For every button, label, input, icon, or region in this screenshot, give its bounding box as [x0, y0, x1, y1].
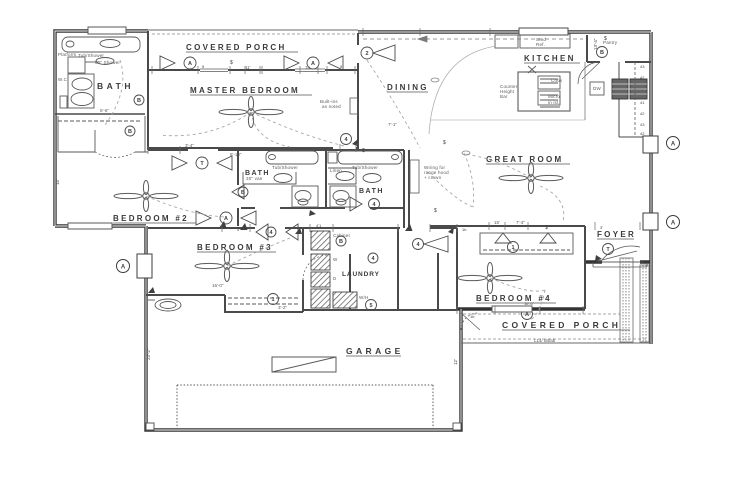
svg-text:7'-1": 7'-1"	[388, 122, 397, 127]
svg-text:11': 11'	[245, 65, 251, 70]
svg-text:DW: DW	[593, 86, 601, 91]
svg-text:MASTER BEDROOM: MASTER BEDROOM	[190, 86, 300, 95]
svg-text:60" Shower: 60" Shower	[95, 60, 120, 65]
svg-text:B: B	[137, 98, 141, 104]
svg-text:A: A	[671, 142, 676, 148]
svg-text:Ref.: Ref.	[536, 42, 545, 47]
svg-text:B: B	[128, 129, 132, 135]
svg-text:16'-0": 16'-0"	[524, 301, 535, 306]
svg-text:W.C.: W.C.	[58, 77, 69, 82]
svg-text:12': 12'	[453, 359, 458, 365]
svg-text:15': 15'	[494, 220, 500, 225]
svg-text:43: 43	[640, 64, 645, 69]
svg-text:Linen: Linen	[330, 168, 342, 173]
svg-text:Cook: Cook	[551, 78, 563, 83]
svg-text:2: 2	[365, 51, 368, 57]
svg-text:LAUNDRY: LAUNDRY	[342, 271, 380, 278]
svg-text:5: 5	[369, 303, 372, 309]
svg-text:Micro: Micro	[548, 94, 560, 99]
svg-text:$: $	[362, 148, 365, 154]
svg-text:23'-2": 23'-2"	[146, 348, 151, 360]
svg-text:42: 42	[640, 75, 645, 80]
svg-text:8'-10": 8'-10"	[230, 152, 242, 157]
svg-text:A: A	[224, 216, 228, 222]
svg-text:$: $	[230, 60, 233, 66]
svg-text:+ crown: + crown	[424, 175, 442, 180]
svg-text:$: $	[604, 36, 607, 42]
svg-text:COVERED PORCH: COVERED PORCH	[186, 43, 287, 52]
svg-text:B: B	[339, 239, 343, 245]
svg-text:3'-4": 3'-4"	[185, 143, 194, 148]
svg-text:5'-6": 5'-6"	[100, 108, 109, 113]
svg-text:BEDROOM #3: BEDROOM #3	[197, 243, 273, 252]
svg-text:Tub/Shower: Tub/Shower	[78, 53, 104, 58]
svg-text:43: 43	[640, 122, 645, 127]
svg-text:Bar: Bar	[500, 94, 508, 99]
svg-text:3': 3'	[600, 225, 603, 230]
svg-text:A: A	[671, 221, 676, 227]
svg-text:in isl.: in isl.	[548, 100, 560, 105]
svg-text:30" van: 30" van	[246, 176, 263, 181]
svg-text:D: D	[333, 276, 337, 281]
svg-text:GARAGE: GARAGE	[346, 346, 404, 356]
svg-text:W/H: W/H	[359, 295, 368, 300]
svg-text:W: W	[333, 257, 338, 262]
svg-text:3'-2": 3'-2"	[278, 305, 287, 310]
svg-text:4'1: 4'1	[316, 223, 322, 228]
svg-text:1b: 1b	[470, 314, 475, 319]
svg-text:COVERED PORCH: COVERED PORCH	[502, 320, 621, 330]
svg-text:$: $	[443, 140, 446, 146]
svg-text:15': 15'	[55, 179, 60, 185]
svg-text:Platform: Platform	[58, 52, 76, 57]
svg-text:42: 42	[640, 131, 645, 136]
svg-text:41: 41	[640, 100, 645, 105]
svg-text:Tub/Shower: Tub/Shower	[352, 165, 378, 170]
svg-text:as noted: as noted	[322, 104, 341, 109]
svg-text:BATH: BATH	[359, 188, 384, 195]
svg-text:$: $	[545, 225, 548, 231]
svg-text:BATH: BATH	[97, 81, 134, 91]
svg-text:Cabinet: Cabinet	[333, 233, 350, 238]
svg-text:A: A	[188, 61, 192, 67]
svg-text:13'-4": 13'-4"	[593, 38, 598, 50]
svg-text:1b: 1b	[462, 227, 467, 232]
svg-text:$: $	[434, 208, 437, 214]
svg-text:Tub/Shower: Tub/Shower	[272, 165, 298, 170]
svg-text:A: A	[121, 265, 126, 271]
svg-text:L14/ Bslab: L14/ Bslab	[534, 338, 556, 343]
svg-text:A: A	[311, 61, 315, 67]
svg-text:A: A	[525, 312, 529, 318]
svg-text:BEDROOM #2: BEDROOM #2	[113, 214, 189, 223]
svg-text:16'-0": 16'-0"	[212, 283, 224, 288]
svg-text:BEDROOM #4: BEDROOM #4	[476, 294, 552, 303]
svg-text:FOYER: FOYER	[597, 230, 636, 239]
svg-text:42: 42	[640, 111, 645, 116]
svg-text:B: B	[600, 50, 604, 56]
svg-text:KITCHEN: KITCHEN	[524, 54, 576, 63]
svg-text:7'-3": 7'-3"	[516, 220, 525, 225]
svg-text:DINING: DINING	[387, 83, 429, 92]
svg-text:4': 4'	[237, 227, 240, 232]
